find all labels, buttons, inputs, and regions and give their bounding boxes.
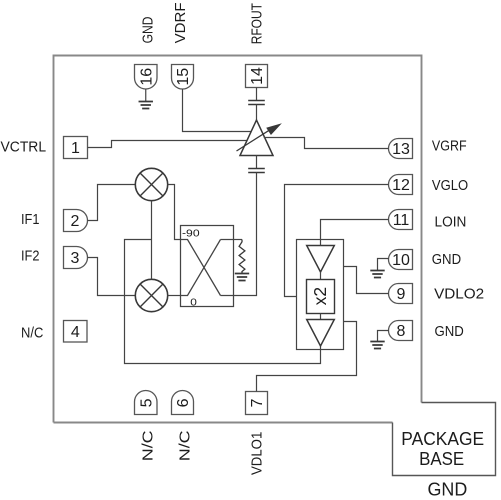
svg-text:16: 16 xyxy=(138,68,155,86)
resistor (zigzag) xyxy=(239,240,245,274)
svg-text:15: 15 xyxy=(175,68,192,86)
svg-text:VGRF: VGRF xyxy=(432,138,467,155)
wire VCTRL xyxy=(88,141,247,148)
svg-text:7: 7 xyxy=(249,398,266,407)
ground below resistor xyxy=(235,274,249,281)
svg-text:12: 12 xyxy=(392,177,410,194)
wire lower cap down to hybrid output xyxy=(234,173,257,296)
pin 14 xyxy=(246,65,268,88)
pin 4 xyxy=(64,321,88,343)
pin 2 xyxy=(64,210,88,232)
svg-text:2: 2 xyxy=(71,213,80,230)
svg-text:IF2: IF2 xyxy=(21,248,40,265)
pin 6 xyxy=(172,391,194,415)
LO amp A2 xyxy=(307,320,335,347)
wire IF1 pin2 to mixer xyxy=(88,185,136,221)
hybrid box xyxy=(181,226,234,307)
svg-text:N/C: N/C xyxy=(177,430,194,461)
svg-text:8: 8 xyxy=(397,323,406,340)
pin 15 xyxy=(172,65,194,90)
pin 9 xyxy=(389,284,413,304)
pin 13 xyxy=(389,139,413,159)
wire mixer M2 out to hybrid xyxy=(168,295,181,297)
svg-text:RFOUT: RFOUT xyxy=(249,3,266,44)
mixer M1 xyxy=(135,168,167,200)
pin 3 xyxy=(64,247,88,269)
LO amp A1 xyxy=(307,246,335,273)
amplifier (variable gain) xyxy=(240,120,273,156)
svg-text:-90: -90 xyxy=(182,228,200,240)
hybrid cross xyxy=(181,240,234,296)
svg-text:N/C: N/C xyxy=(21,324,43,341)
svg-text:0: 0 xyxy=(190,296,197,308)
svg-text:VCTRL: VCTRL xyxy=(1,139,47,156)
svg-text:GND: GND xyxy=(428,480,468,500)
pin 16 xyxy=(135,65,158,90)
pin 10 xyxy=(389,250,413,270)
svg-text:GND: GND xyxy=(435,323,464,340)
capacitor above amp xyxy=(248,101,265,105)
svg-text:x2: x2 xyxy=(310,287,330,305)
svg-text:13: 13 xyxy=(392,141,410,158)
ground at pin 8 xyxy=(378,331,389,342)
svg-text:1: 1 xyxy=(71,140,80,157)
pin 1 xyxy=(64,137,88,159)
wire cap to amp apex xyxy=(256,105,258,121)
svg-text:5: 5 xyxy=(138,398,155,407)
svg-text:GND: GND xyxy=(139,16,156,43)
wire IF2 pin3 to mixer xyxy=(88,258,136,296)
svg-text:N/C: N/C xyxy=(140,430,157,461)
wire VDRF xyxy=(183,89,252,132)
chip outline xyxy=(54,56,422,423)
svg-text:14: 14 xyxy=(249,67,266,85)
svg-text:10: 10 xyxy=(392,252,410,269)
wire x2 to A2 xyxy=(320,314,322,320)
ground at pin 10 xyxy=(378,259,389,271)
wire VDLO2 pin9 to doubler xyxy=(344,267,389,294)
svg-text:GND: GND xyxy=(432,251,461,268)
svg-text:LOIN: LOIN xyxy=(435,213,467,230)
mixer M2 xyxy=(135,279,167,311)
ground at pin 16 xyxy=(145,89,147,102)
svg-text:9: 9 xyxy=(397,286,406,303)
doubler outer box xyxy=(297,240,344,350)
wire LO to both mixers xyxy=(151,201,153,280)
wire amp output to pin 13 xyxy=(264,138,389,149)
svg-text:IF1: IF1 xyxy=(21,211,40,228)
svg-text:VDLO2: VDLO2 xyxy=(434,285,484,302)
wire hybrid to resistor xyxy=(234,239,243,241)
wire VGLO pin12 to doubler xyxy=(285,185,389,297)
capacitor below amp xyxy=(248,169,265,173)
pin 7 xyxy=(246,392,268,415)
svg-text:4: 4 xyxy=(71,324,80,341)
svg-text:PACKAGE: PACKAGE xyxy=(401,429,484,449)
wire VDLO1 pin7 to doubler xyxy=(257,322,357,392)
package base box xyxy=(393,403,496,476)
svg-text:3: 3 xyxy=(71,250,80,267)
pin 8 xyxy=(389,321,413,341)
wire LOIN pin11 to doubler xyxy=(321,220,389,246)
wire mixer M1 out to hybrid xyxy=(168,185,181,240)
wire A1 to x2 xyxy=(320,272,322,280)
x2 multiplier box xyxy=(307,280,335,314)
svg-text:VGLO: VGLO xyxy=(432,177,468,194)
svg-text:6: 6 xyxy=(175,398,192,407)
svg-text:VDLO1: VDLO1 xyxy=(249,432,266,475)
package base label xyxy=(401,429,484,499)
pin 12 xyxy=(389,175,413,195)
pin 5 xyxy=(135,391,158,415)
svg-text:11: 11 xyxy=(393,212,410,229)
wire amp base to lower cap xyxy=(256,156,258,169)
svg-text:VDRF: VDRF xyxy=(172,2,189,43)
wire pin14 to cap xyxy=(256,88,258,101)
svg-text:BASE: BASE xyxy=(419,449,464,469)
gain arrow xyxy=(237,129,272,151)
pin 11 xyxy=(389,210,413,230)
